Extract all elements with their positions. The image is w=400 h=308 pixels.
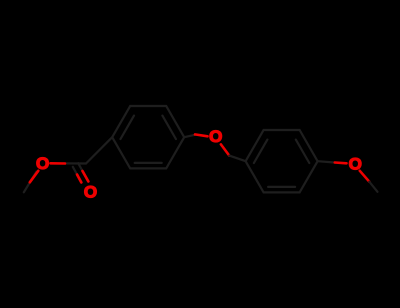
- bond ring2 to methoxy O (red half): [335, 161, 347, 164]
- carbonyl C=O double bond (dark upper halves): [73, 163, 83, 175]
- bond ether O to ring2 (dark half): [229, 156, 245, 162]
- ester O to methyl bond (red half): [30, 171, 39, 183]
- bond ring2 to methoxy O (dark half): [318, 161, 336, 162]
- benzene ring 1 (left, outline): [112, 106, 184, 168]
- carbonyl C=O double bond (red lower halves): [77, 171, 88, 182]
- atom O2 carbonyl oxygen label: [84, 182, 97, 201]
- bond ring1 to carbonyl carbon C1: [86, 137, 112, 163]
- atom O1 ester oxygen label: [36, 154, 49, 173]
- svg-text:O: O: [84, 182, 97, 201]
- svg-text:O: O: [209, 127, 222, 146]
- benzene ring 2 (right, outline): [246, 130, 318, 192]
- atom O4 methoxy oxygen label: [349, 154, 362, 173]
- atom O3 ether oxygen label: [209, 127, 222, 146]
- svg-text:O: O: [36, 154, 49, 173]
- methoxy O to methyl bond (red half): [360, 171, 370, 182]
- methoxy O to methyl bond (dark half): [369, 182, 377, 192]
- benzene ring 2 inner aromatic lines: [254, 140, 309, 187]
- bond ether O to ring2 (red half): [221, 144, 229, 155]
- bond C1 to ester O (red half): [51, 162, 66, 165]
- bond C1 to ester O (dark half): [63, 162, 86, 164]
- svg-text:O: O: [349, 154, 362, 173]
- bond ring1 to ether O (dark half): [184, 135, 196, 138]
- ester O to methyl bond (dark half): [24, 172, 37, 193]
- bond ring1 to ether O (red half): [195, 134, 208, 136]
- benzene ring 1 inner aromatic lines: [121, 116, 176, 163]
